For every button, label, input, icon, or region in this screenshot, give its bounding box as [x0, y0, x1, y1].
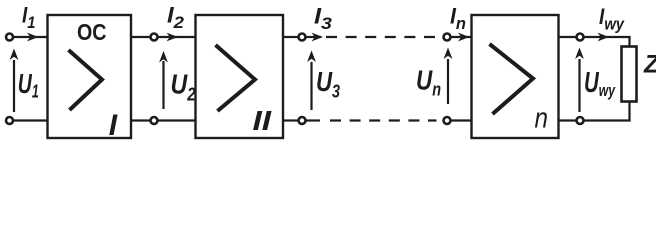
svg-text:I1: I1: [22, 3, 36, 33]
svg-text:I2: I2: [167, 3, 185, 33]
svg-text:U3: U3: [316, 66, 340, 102]
svg-text:n: n: [535, 103, 549, 135]
svg-text:OC: OC: [77, 19, 107, 45]
svg-text:I: I: [109, 109, 118, 142]
svg-text:Z: Z: [643, 51, 656, 79]
svg-text:Uwy: Uwy: [584, 67, 616, 100]
svg-text:II: II: [253, 105, 273, 136]
svg-text:Iwy: Iwy: [599, 4, 625, 34]
svg-text:In: In: [450, 4, 466, 34]
svg-text:I3: I3: [314, 4, 333, 34]
svg-text:Un: Un: [416, 65, 441, 100]
svg-text:U1: U1: [18, 68, 39, 102]
svg-text:U2: U2: [171, 68, 196, 104]
